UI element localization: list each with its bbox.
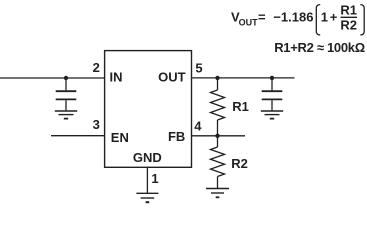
svg-text:1: 1 (151, 171, 158, 186)
svg-text:1: 1 (321, 9, 328, 24)
svg-text:4: 4 (194, 118, 202, 133)
svg-text:−1.186: −1.186 (273, 9, 313, 24)
svg-text:+: + (330, 9, 338, 24)
svg-text:OUT: OUT (158, 69, 186, 84)
svg-text:R2: R2 (231, 156, 248, 171)
svg-text:GND: GND (133, 150, 162, 165)
svg-text:5: 5 (195, 61, 202, 76)
svg-text:R1+R2 ≈ 100kΩ: R1+R2 ≈ 100kΩ (274, 40, 365, 55)
svg-text:R2: R2 (340, 18, 357, 33)
svg-text:=: = (258, 9, 266, 24)
svg-text:EN: EN (111, 130, 129, 145)
svg-text:IN: IN (110, 69, 123, 84)
svg-text:R1: R1 (340, 2, 357, 17)
svg-text:3: 3 (93, 117, 100, 132)
svg-text:2: 2 (93, 60, 100, 75)
svg-text:OUT: OUT (239, 17, 259, 27)
svg-text:FB: FB (168, 129, 185, 144)
svg-text:R1: R1 (232, 99, 249, 114)
